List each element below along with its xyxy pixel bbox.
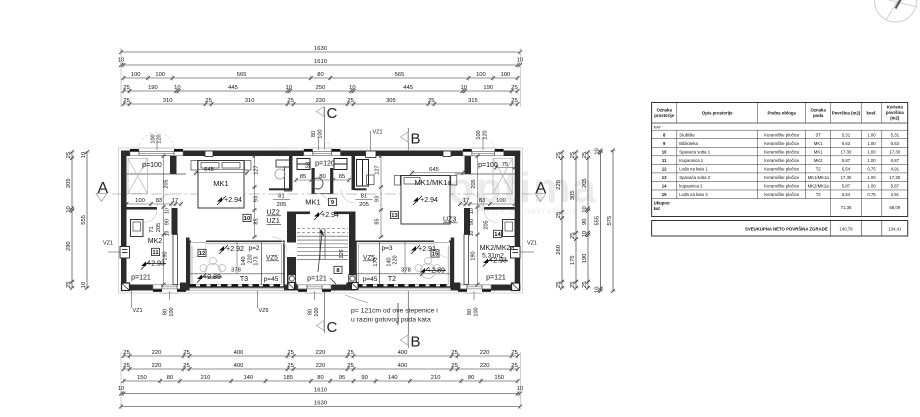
- svg-text:127: 127: [375, 165, 381, 174]
- svg-text:kupaonica 2: kupaonica 2: [679, 184, 703, 189]
- svg-text:MK1/MK1a: MK1/MK1a: [414, 178, 452, 187]
- svg-text:KAT: KAT: [654, 124, 662, 129]
- compass symbol: [875, 0, 918, 22]
- door arc bath left: [144, 210, 157, 223]
- elevation +2.89 struck left loggia: [197, 274, 206, 283]
- outer wall bottom right segment: [451, 285, 521, 291]
- central shaft wall left: [312, 168, 315, 194]
- svg-text:17,30: 17,30: [841, 149, 852, 154]
- label VZ5 left: [266, 255, 279, 262]
- svg-text:12: 12: [199, 251, 205, 257]
- svg-text:MK2/MK2a: MK2/MK2a: [808, 184, 830, 189]
- svg-text:10: 10: [595, 148, 601, 154]
- svg-text:555: 555: [595, 216, 601, 226]
- svg-text:+2.94: +2.94: [224, 197, 242, 204]
- svg-text:100: 100: [501, 72, 511, 78]
- svg-text:25: 25: [511, 85, 517, 91]
- washbasin right bath: [503, 220, 516, 237]
- svg-text:140,79: 140,79: [839, 226, 853, 231]
- elevation +2.93 struck right: [483, 258, 492, 267]
- svg-text:220: 220: [152, 363, 162, 369]
- loggia dim 378 left + 140/220/173: [231, 241, 259, 273]
- svg-text:MK1: MK1: [305, 198, 320, 207]
- window label 80/100 top-center: [311, 129, 324, 150]
- wall biblioteka right: [352, 156, 356, 190]
- window label 80/100 bottom-center: [308, 291, 321, 317]
- central shaft bottom line: [312, 193, 334, 195]
- door arc shaft: [317, 194, 329, 206]
- svg-text:565: 565: [395, 72, 405, 78]
- svg-text:205: 205: [471, 179, 477, 188]
- svg-text:MK2/MK2a: MK2/MK2a: [480, 245, 515, 252]
- washbasin left bath: [131, 220, 144, 237]
- pillar right loggia outer: [453, 283, 461, 291]
- shaft box top wall VZ1: [366, 151, 377, 158]
- svg-text:25: 25: [511, 363, 517, 369]
- svg-text:100: 100: [474, 307, 480, 316]
- svg-text:Površina (m2): Površina (m2): [832, 111, 861, 116]
- svg-text:T2: T2: [816, 167, 822, 172]
- svg-text:p= 121cm od ove stepenice i: p= 121cm od ove stepenice i: [351, 308, 438, 315]
- svg-text:Keramičke pločice: Keramičke pločice: [764, 167, 799, 172]
- svg-text:Keramičke pločice: Keramičke pločice: [764, 141, 799, 146]
- window label 100/120 top-left: [151, 134, 163, 150]
- svg-text:25: 25: [183, 350, 189, 356]
- wardrobe top-right hatched: [493, 159, 513, 194]
- svg-text:260: 260: [556, 245, 562, 255]
- svg-text:p=45: p=45: [363, 276, 378, 283]
- svg-text:81: 81: [278, 194, 284, 200]
- svg-text:površina: površina: [886, 110, 905, 115]
- svg-text:T2: T2: [388, 276, 396, 283]
- window label 100/120 top-right: [476, 130, 489, 150]
- window bottom-right 80/100: [458, 284, 491, 292]
- svg-text:MK1/MK1a: MK1/MK1a: [808, 175, 830, 180]
- fraction 81/205 left: [273, 194, 290, 209]
- loggia right side wall: [451, 238, 455, 291]
- svg-text:+2.93: +2.93: [147, 261, 165, 268]
- interior wall right corridor vertical: [465, 156, 472, 174]
- window label 80/100 bottom-left: [163, 291, 176, 317]
- dim extension lines bottom: [120, 352, 122, 409]
- svg-text:120: 120: [157, 134, 163, 143]
- svg-text:15: 15: [662, 192, 667, 197]
- corner block bottom-left: [122, 283, 130, 291]
- loggia left door arc: [191, 243, 206, 258]
- elevation +2.94 room 13: [413, 196, 422, 205]
- svg-text:11: 11: [152, 250, 159, 256]
- svg-text:p=45: p=45: [264, 276, 279, 283]
- svg-text:100: 100: [314, 307, 320, 316]
- svg-text:220: 220: [480, 350, 490, 356]
- shaft box left wall: [120, 247, 130, 259]
- svg-text:MK1: MK1: [213, 179, 228, 188]
- wardrobe right unit tall: [357, 160, 369, 187]
- interior wall right corridor horizontal line: [455, 173, 515, 175]
- interior wall left bath vertical lower thin: [173, 235, 178, 285]
- svg-text:MK2: MK2: [148, 238, 163, 245]
- svg-text:Korisna: Korisna: [887, 105, 904, 110]
- svg-text:100: 100: [318, 129, 324, 138]
- svg-text:555: 555: [81, 215, 87, 225]
- svg-text:25: 25: [205, 98, 211, 104]
- svg-text:378: 378: [401, 268, 411, 274]
- svg-text:185: 185: [283, 375, 293, 381]
- svg-text:25: 25: [511, 98, 517, 104]
- svg-text:C: C: [327, 319, 338, 336]
- svg-text:100: 100: [131, 72, 141, 78]
- svg-text:10: 10: [165, 231, 171, 237]
- svg-text:80: 80: [317, 72, 323, 78]
- column box top wall right: [443, 151, 451, 157]
- svg-text:+2.94: +2.94: [321, 212, 339, 219]
- svg-text:25: 25: [123, 350, 129, 356]
- svg-text:+2.89: +2.89: [427, 268, 445, 275]
- note text stepenice: [345, 295, 438, 325]
- svg-text:poda: poda: [813, 113, 824, 118]
- column x-box stair wall right: [352, 283, 359, 290]
- svg-text:10: 10: [469, 208, 475, 214]
- left dim chain outer: [81, 150, 89, 290]
- svg-text:80: 80: [467, 309, 473, 315]
- svg-text:400: 400: [234, 350, 244, 356]
- elevation +2.89 struck right loggia: [420, 267, 429, 276]
- svg-text:25: 25: [347, 363, 353, 369]
- hdim 17 83 100 right: [458, 198, 516, 207]
- svg-text:90: 90: [361, 375, 367, 381]
- svg-text:p=2: p=2: [248, 245, 259, 252]
- svg-text:25: 25: [570, 152, 576, 158]
- svg-text:25: 25: [347, 98, 353, 104]
- svg-text:50: 50: [306, 162, 312, 168]
- desk right unit small: [367, 175, 375, 185]
- svg-text:71,36: 71,36: [841, 205, 852, 210]
- svg-text:150: 150: [494, 375, 504, 381]
- elevation +2.91 right loggia: [411, 245, 420, 254]
- axis A dashed line: [112, 193, 538, 195]
- svg-text:6,63: 6,63: [891, 141, 900, 146]
- svg-text:kat: kat: [654, 206, 661, 211]
- stairwell wall left lower: [287, 257, 296, 291]
- hdim 85 80 85 center: [294, 174, 351, 183]
- outer wall left: [121, 151, 127, 291]
- svg-text:(m2): (m2): [890, 116, 900, 121]
- svg-text:85: 85: [339, 174, 345, 180]
- svg-text:83: 83: [479, 198, 485, 204]
- svg-text:25: 25: [582, 152, 588, 158]
- label UZ2: [267, 210, 282, 217]
- svg-text:koef.: koef.: [866, 111, 876, 116]
- sill line top-left window: [137, 147, 176, 149]
- svg-text:140: 140: [388, 375, 398, 381]
- right dim chain 1: [556, 150, 564, 290]
- curtain arc top-center window: [313, 141, 332, 150]
- svg-text:220: 220: [316, 350, 326, 356]
- svg-text:MK2: MK2: [814, 158, 823, 163]
- svg-text:6,63: 6,63: [842, 141, 851, 146]
- loggia right (Lodja na katu 2): [356, 241, 451, 290]
- top dim row segments C: [122, 98, 520, 106]
- svg-text:Ukupno: Ukupno: [654, 201, 670, 206]
- svg-text:305: 305: [570, 191, 576, 201]
- svg-text:0,75: 0,75: [867, 167, 876, 172]
- svg-text:10: 10: [81, 152, 87, 158]
- interior vdim cluster right 10-90-10/205: [469, 208, 490, 236]
- svg-text:1610: 1610: [314, 388, 327, 394]
- svg-text:14: 14: [494, 232, 501, 238]
- fraction 81/205 right: [356, 194, 373, 209]
- hdim 645 right: [410, 167, 465, 175]
- interior wall left bath vertical: [172, 208, 178, 235]
- svg-text:190: 190: [483, 85, 493, 91]
- bedside table right bed L: [394, 176, 400, 186]
- svg-text:310: 310: [163, 98, 173, 104]
- svg-text:prostorije: prostorije: [654, 113, 674, 118]
- svg-text:p=3: p=3: [381, 245, 392, 252]
- svg-text:1.00: 1.00: [867, 184, 876, 189]
- window bottom-center 80/100: [298, 284, 331, 292]
- svg-text:10: 10: [595, 287, 601, 293]
- svg-text:100: 100: [476, 130, 482, 139]
- svg-text:127: 127: [254, 165, 260, 174]
- svg-text:190: 190: [148, 85, 158, 91]
- svg-text:14: 14: [662, 184, 667, 189]
- curtain arc top-right window: [472, 139, 495, 150]
- svg-text:17,30: 17,30: [889, 175, 900, 180]
- interior wall left bath top: [127, 207, 158, 210]
- loggia dim 378 right + 140/220/173: [373, 241, 411, 273]
- pillar left loggia outer: [180, 283, 188, 291]
- svg-text:11: 11: [662, 158, 667, 163]
- svg-text:175: 175: [570, 255, 576, 265]
- svg-text:Podna obloga: Podna obloga: [767, 111, 796, 116]
- svg-text:VZ1: VZ1: [373, 130, 383, 136]
- wall biblioteka right return: [355, 188, 367, 190]
- svg-text:90: 90: [165, 219, 171, 225]
- svg-text:445: 445: [228, 85, 238, 91]
- svg-text:25: 25: [287, 350, 293, 356]
- interior wall right bath vertical lower thin: [464, 235, 469, 285]
- svg-text:25: 25: [287, 363, 293, 369]
- window top-center 80/100: [304, 149, 341, 157]
- svg-text:25: 25: [123, 98, 129, 104]
- svg-text:1.00: 1.00: [867, 141, 876, 146]
- svg-text:Spavaća soba 1: Spavaća soba 1: [679, 149, 710, 154]
- svg-text:VZ1: VZ1: [103, 241, 113, 247]
- svg-text:83: 83: [156, 198, 162, 204]
- svg-text:250: 250: [316, 85, 326, 91]
- svg-text:5,31: 5,31: [891, 132, 900, 137]
- window top-left 100/120: [130, 149, 183, 157]
- svg-text:+2.92: +2.92: [226, 246, 244, 253]
- svg-text:25: 25: [570, 233, 576, 239]
- svg-text:226: 226: [339, 249, 345, 258]
- svg-text:1.00: 1.00: [867, 158, 876, 163]
- svg-text:B: B: [411, 131, 421, 148]
- loggia partition right VZ5: [379, 241, 381, 285]
- svg-text:1610: 1610: [314, 59, 327, 65]
- outer wall bottom center segment: [284, 285, 356, 291]
- central shaft wall right: [330, 168, 333, 194]
- axis marker A right: [535, 180, 547, 202]
- svg-text:10: 10: [582, 231, 588, 237]
- door arc corridor right: [470, 194, 484, 208]
- bed MK1 left: [198, 161, 244, 209]
- label UZ1: [267, 218, 282, 225]
- right dim chain 5: [607, 148, 615, 293]
- axis B top marker: [401, 128, 421, 150]
- svg-text:UZ2: UZ2: [267, 210, 280, 217]
- svg-text:575: 575: [607, 216, 613, 226]
- svg-text:p=121: p=121: [131, 275, 151, 282]
- stairs treads: [297, 229, 348, 260]
- stairwell top wall segment left: [296, 212, 310, 215]
- VZ1 label right side: [520, 241, 537, 253]
- stairwell wall left upper: [287, 212, 296, 243]
- svg-text:400: 400: [398, 363, 408, 369]
- svg-text:C: C: [327, 105, 338, 122]
- svg-text:290: 290: [66, 241, 72, 251]
- svg-text:80: 80: [167, 375, 173, 381]
- svg-text:6,54: 6,54: [842, 192, 851, 197]
- hdim 645 left: [194, 167, 249, 175]
- svg-text:210: 210: [431, 375, 441, 381]
- top dim row 1630: [119, 46, 522, 54]
- interior vdim line right x477.5: [471, 154, 481, 286]
- bottom dim row segments B: [122, 363, 520, 371]
- svg-text:10: 10: [662, 149, 667, 154]
- desk left unit: [276, 160, 292, 191]
- outer wall outline thin: [119, 148, 523, 293]
- svg-text:Keramičke pločice: Keramičke pločice: [764, 184, 799, 189]
- outer wall right: [515, 151, 521, 291]
- svg-text:10: 10: [81, 282, 87, 288]
- wall biblioteka left return: [269, 188, 293, 190]
- svg-text:25: 25: [287, 98, 293, 104]
- svg-text:120: 120: [483, 130, 489, 139]
- svg-text:SVEUKUPNA NETO POVRŠINA ZGRADE: SVEUKUPNA NETO POVRŠINA ZGRADE: [745, 226, 828, 231]
- svg-text:p=120: p=120: [315, 161, 335, 168]
- svg-text:17,30: 17,30: [889, 149, 900, 154]
- svg-text:10: 10: [469, 231, 475, 237]
- svg-text:190: 190: [163, 251, 169, 260]
- svg-text:220: 220: [393, 255, 399, 264]
- svg-text:645: 645: [204, 167, 214, 173]
- svg-text:400: 400: [234, 363, 244, 369]
- interior vdim cluster left 71/205/10-90-10: [149, 208, 171, 236]
- svg-text:VZ5: VZ5: [363, 255, 375, 262]
- svg-text:25: 25: [66, 152, 72, 158]
- svg-text:1.00: 1.00: [867, 175, 876, 180]
- stairwell top wall segment right: [334, 212, 349, 215]
- svg-text:VZ5: VZ5: [266, 255, 278, 262]
- door arc stair left: [272, 237, 287, 252]
- svg-text:25: 25: [556, 212, 562, 218]
- svg-text:220: 220: [316, 98, 326, 104]
- svg-text:80: 80: [311, 131, 317, 137]
- svg-text:VZ1: VZ1: [527, 241, 537, 247]
- column x-box stair wall left: [288, 283, 295, 290]
- svg-text:100: 100: [476, 72, 486, 78]
- svg-text:205: 205: [277, 202, 287, 208]
- svg-text:25: 25: [347, 350, 353, 356]
- svg-text:5,87: 5,87: [891, 158, 900, 163]
- left dim chain inner: [66, 150, 74, 290]
- svg-text:p=121: p=121: [307, 276, 327, 283]
- VZ6 label bottom: [258, 291, 269, 315]
- svg-text:93: 93: [375, 196, 381, 202]
- column box top wall left: [205, 151, 213, 157]
- svg-text:305: 305: [386, 98, 396, 104]
- svg-text:25: 25: [570, 282, 576, 288]
- svg-text:25: 25: [556, 152, 562, 158]
- pillar right loggia inner: [346, 283, 354, 291]
- svg-text:Lođa na katu 1: Lođa na katu 1: [679, 167, 708, 172]
- svg-text:80: 80: [468, 375, 474, 381]
- svg-text:13: 13: [391, 213, 398, 219]
- svg-text:Lođa na katu 2: Lođa na katu 2: [679, 192, 708, 197]
- svg-text:25: 25: [582, 282, 588, 288]
- svg-text:205: 205: [156, 223, 162, 232]
- svg-text:T3: T3: [240, 276, 248, 283]
- svg-text:220: 220: [152, 350, 162, 356]
- svg-text:100: 100: [169, 307, 175, 316]
- svg-text:1.00: 1.00: [867, 149, 876, 154]
- svg-text:Stubište: Stubište: [679, 132, 695, 137]
- loggia right table set: [415, 258, 441, 279]
- right dim chain 2: [570, 150, 578, 290]
- label p=121 stairs: [307, 276, 336, 285]
- svg-text:17: 17: [463, 198, 469, 204]
- svg-text:173: 173: [254, 256, 260, 265]
- svg-text:Keramičke pločice: Keramičke pločice: [764, 149, 799, 154]
- svg-text:UZ1: UZ1: [267, 218, 280, 225]
- svg-text:25: 25: [428, 98, 434, 104]
- svg-text:4,91: 4,91: [891, 192, 900, 197]
- bed MK1a right: [401, 176, 450, 225]
- svg-text:5,87: 5,87: [842, 158, 851, 163]
- vdim 226 stairs: [339, 249, 345, 258]
- svg-text:25: 25: [183, 363, 189, 369]
- svg-text:p=100: p=100: [478, 162, 498, 169]
- svg-text:p=121: p=121: [486, 275, 506, 282]
- svg-text:10: 10: [244, 216, 250, 222]
- svg-text:13: 13: [662, 175, 667, 180]
- svg-text:17,30: 17,30: [841, 175, 852, 180]
- sill line top-center window: [311, 147, 334, 149]
- svg-text:10: 10: [165, 208, 171, 214]
- svg-text:565: 565: [237, 72, 247, 78]
- svg-text:Keramičke pločice: Keramičke pločice: [764, 132, 799, 137]
- chair left unit: [275, 169, 285, 179]
- svg-text:68,09: 68,09: [889, 205, 900, 210]
- svg-text:150: 150: [137, 375, 147, 381]
- svg-text:25: 25: [123, 85, 129, 91]
- svg-text:25: 25: [451, 363, 457, 369]
- svg-text:205: 205: [66, 178, 72, 188]
- svg-text:5,87: 5,87: [842, 184, 851, 189]
- svg-text:85: 85: [300, 174, 306, 180]
- door arc corridor left: [157, 194, 171, 208]
- bottom dim row segments A: [122, 350, 520, 358]
- hdim 75 right p100: [494, 162, 516, 170]
- svg-text:Oznaka: Oznaka: [657, 108, 673, 113]
- svg-text:71: 71: [149, 226, 155, 232]
- pillar left loggia inner: [290, 283, 297, 291]
- door arc bath right: [484, 210, 497, 223]
- svg-text:445: 445: [403, 85, 413, 91]
- svg-text:205: 205: [484, 220, 490, 229]
